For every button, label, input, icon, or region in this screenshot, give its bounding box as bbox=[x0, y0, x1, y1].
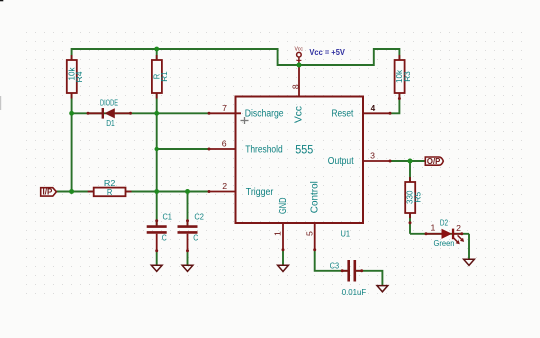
svg-text:Output: Output bbox=[328, 156, 354, 167]
wire C2 top bbox=[187, 192, 189, 226]
wire R1 bottom vertical bbox=[156, 93, 158, 226]
junction R1 top bus bbox=[154, 47, 159, 52]
wire pin5 down bbox=[315, 250, 348, 271]
svg-text:C1: C1 bbox=[162, 213, 172, 222]
pin 1 line bbox=[282, 223, 284, 250]
pin 5 line bbox=[314, 223, 316, 250]
pin 2 line bbox=[209, 191, 236, 193]
svg-text:DIODE: DIODE bbox=[100, 98, 118, 107]
svg-text:Vcc = +5V: Vcc = +5V bbox=[309, 47, 345, 57]
resistor R2 body bbox=[88, 188, 132, 197]
junction trigger row left bbox=[69, 189, 74, 194]
junction output row bbox=[408, 159, 413, 164]
anchor cross bbox=[241, 117, 249, 124]
wire top bus left bbox=[56, 49, 469, 286]
svg-text:R4: R4 bbox=[75, 71, 84, 82]
svg-text:555: 555 bbox=[295, 145, 313, 157]
svg-text:R1: R1 bbox=[160, 71, 169, 82]
svg-text:Discharge: Discharge bbox=[245, 109, 284, 120]
svg-text:O/P: O/P bbox=[427, 157, 440, 166]
pin end dots bbox=[87, 97, 464, 272]
wire left vertical bbox=[71, 93, 73, 192]
resistor R3 body bbox=[395, 55, 405, 99]
svg-text:I/P: I/P bbox=[43, 188, 53, 197]
ground at C3 bbox=[377, 286, 388, 292]
svg-text:6: 6 bbox=[222, 139, 227, 149]
pin 3 line bbox=[363, 160, 390, 162]
wire R5 bottom bbox=[409, 213, 411, 234]
op-amp/timer IC U1 555 box bbox=[236, 97, 364, 224]
wire reset to R3 bbox=[390, 93, 399, 113]
wire R5 top bbox=[409, 161, 411, 182]
ground at C2 bbox=[182, 265, 193, 271]
svg-text:Green: Green bbox=[434, 239, 455, 248]
svg-text:GND: GND bbox=[278, 198, 289, 215]
svg-text:1: 1 bbox=[430, 223, 435, 233]
wire C3 right bbox=[356, 271, 382, 286]
svg-text:2: 2 bbox=[456, 223, 461, 233]
svg-text:Control: Control bbox=[310, 181, 321, 213]
svg-text:Trigger: Trigger bbox=[246, 187, 274, 198]
junction threshold row bbox=[155, 147, 159, 151]
svg-text:4: 4 bbox=[371, 104, 376, 113]
svg-text:D1: D1 bbox=[106, 119, 115, 128]
capacitor C3 bbox=[342, 260, 362, 282]
svg-text:Reset: Reset bbox=[332, 109, 354, 120]
svg-text:C: C bbox=[162, 233, 167, 242]
resistor R1 body bbox=[152, 55, 162, 99]
svg-text:0.01uF: 0.01uF bbox=[342, 288, 367, 297]
wire R1 top bbox=[156, 49, 158, 60]
svg-text:C: C bbox=[193, 233, 198, 242]
pin 4 line bbox=[363, 112, 390, 114]
wire discharge row bbox=[72, 112, 209, 114]
wire C1 bottom bbox=[156, 251, 158, 265]
wire threshold row bbox=[157, 148, 209, 150]
wire trigger row bbox=[56, 191, 209, 193]
svg-text:Vcc: Vcc bbox=[294, 106, 305, 123]
svg-text:R: R bbox=[107, 188, 113, 197]
Vcc power symbol bbox=[296, 52, 301, 65]
svg-text:7: 7 bbox=[222, 103, 227, 113]
svg-text:R3: R3 bbox=[403, 71, 412, 82]
svg-text:R5: R5 bbox=[413, 191, 422, 202]
junction trigger row C1 bbox=[154, 189, 159, 194]
svg-text:8: 8 bbox=[290, 84, 300, 89]
svg-text:C2: C2 bbox=[194, 213, 204, 222]
junction discharge row left bbox=[69, 111, 74, 116]
resistor R4 body bbox=[67, 55, 77, 99]
LED D2 bbox=[426, 229, 464, 245]
svg-text:U1: U1 bbox=[341, 229, 351, 239]
ground at LED bbox=[464, 259, 475, 265]
wire LED to ground bbox=[468, 234, 470, 259]
ground at C1 bbox=[151, 265, 162, 271]
junction discharge row R1 bbox=[154, 111, 159, 116]
port O/P bbox=[425, 157, 443, 166]
svg-text:Threshold: Threshold bbox=[245, 144, 283, 155]
capacitor C1 bbox=[147, 221, 167, 251]
svg-text:5: 5 bbox=[305, 231, 315, 236]
svg-text:R2: R2 bbox=[104, 179, 116, 188]
pin 8 line bbox=[298, 65, 300, 97]
svg-text:C3: C3 bbox=[330, 262, 340, 271]
diode D1 bbox=[88, 108, 131, 119]
wire C2 bottom bbox=[187, 251, 189, 265]
wire output row bbox=[390, 160, 425, 162]
svg-text:3: 3 bbox=[370, 151, 375, 161]
svg-text:1: 1 bbox=[272, 231, 282, 236]
pin 6 line bbox=[209, 148, 236, 150]
wire pin1 to ground bbox=[282, 250, 284, 265]
junction trigger row C2 bbox=[185, 189, 190, 194]
svg-text:Vcc: Vcc bbox=[294, 47, 303, 53]
resistor R5 body bbox=[405, 177, 415, 218]
ground at pin1 bbox=[278, 265, 289, 271]
port I/P bbox=[41, 188, 57, 197]
svg-text:2: 2 bbox=[222, 181, 227, 191]
svg-text:D2: D2 bbox=[440, 219, 449, 228]
wire LED row bbox=[410, 233, 469, 235]
capacitor C2 bbox=[178, 221, 198, 251]
pin 7 line bbox=[209, 65, 390, 250]
junction Vcc bus bbox=[297, 63, 302, 68]
